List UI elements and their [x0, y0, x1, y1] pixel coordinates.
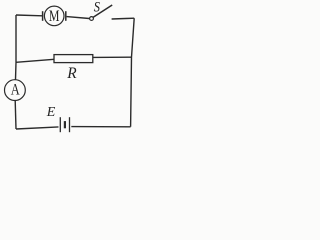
- ammeter A: [5, 80, 26, 101]
- wire: R branch right lead: [93, 56, 132, 58]
- svg-text:M: M: [49, 8, 60, 25]
- svg-text:S: S: [94, 0, 101, 15]
- motor M (circle with brush bars): [43, 6, 66, 26]
- wire: bottom left segment (battery to corner): [16, 127, 59, 129]
- switch S: contact circle: [90, 17, 94, 21]
- wire: R branch left lead: [16, 59, 54, 62]
- battery E: [60, 117, 69, 132]
- wire: left vertical lower (ammeter to bottom corner): [14, 101, 17, 129]
- wire: switch to top-right corner: [112, 17, 135, 20]
- wire: motor to switch contact: [67, 17, 90, 19]
- svg-text:E: E: [46, 105, 56, 120]
- wire: top-left corner to motor left brush: [16, 14, 42, 17]
- wire: left vertical (R junction to ammeter): [15, 62, 18, 79]
- svg-text:R: R: [66, 65, 77, 82]
- wire: left vertical upper (corner to R junction): [15, 15, 17, 62]
- wire: right vertical (top corner to bottom corner): [131, 18, 135, 127]
- switch S: lever arm: [93, 5, 112, 17]
- wire: bottom right segment (corner to battery): [71, 126, 130, 128]
- resistor R (box): [54, 55, 93, 63]
- svg-text:A: A: [11, 82, 20, 99]
